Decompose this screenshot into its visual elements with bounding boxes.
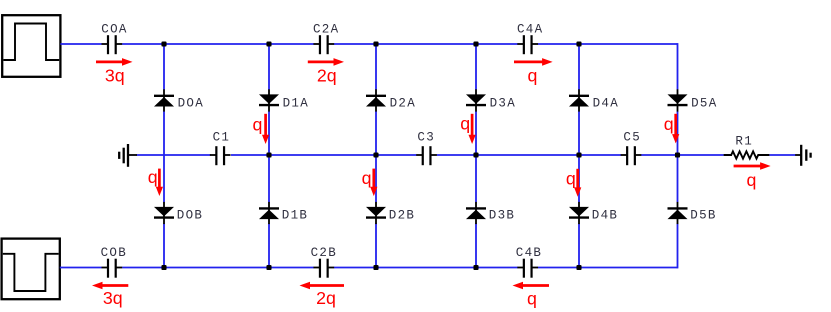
capacitor C2A [313, 35, 334, 54]
wire top rail: V1 to C0A [60, 43, 101, 45]
wire column 4: top rail to D4A [578, 44, 580, 90]
junction top rail node A1 [266, 41, 271, 46]
svg-text:COB: COB [101, 246, 127, 260]
svg-text:q: q [528, 65, 538, 85]
wire column 2: D2B to bottom rail [375, 223, 377, 267]
junction bottom rail node B2 [373, 265, 378, 270]
charge flow arrow q out of C4B [513, 282, 550, 290]
junction bottom rail node B3 [473, 265, 478, 270]
junction top rail node A4 [576, 41, 581, 46]
charge flow arrow q into D1A [262, 114, 269, 144]
wire top rail: C4A to right corner [538, 43, 678, 45]
wire: D5B down to bottom-right corner [677, 224, 679, 269]
wire column 2: top rail to D2A [375, 44, 377, 90]
diode D3A [466, 89, 486, 111]
svg-text:q: q [253, 114, 263, 134]
svg-text:COA: COA [101, 23, 127, 37]
junction top rail node A3 [473, 41, 478, 46]
wire bottom rail: C4B to right corner [538, 267, 678, 269]
charge flow arrow 2q out of C2B [300, 282, 345, 290]
charge flow arrow 3q into C0A [96, 58, 133, 66]
junction mid rail DC node at column 3 [473, 152, 478, 157]
wire mid rail: C5 to R1 [641, 154, 724, 156]
diode D3B [466, 202, 486, 224]
wire mid rail: R1 to ground [769, 154, 795, 156]
capacitor C5 [621, 146, 642, 165]
charge flow arrow q into D2B [370, 169, 377, 197]
svg-text:q: q [148, 167, 158, 187]
svg-text:D1B: D1B [282, 208, 308, 222]
svg-text:3q: 3q [103, 288, 123, 308]
svg-text:q: q [664, 114, 674, 134]
svg-text:D1A: D1A [283, 96, 309, 110]
junction top rail node A0 [161, 41, 166, 46]
junction mid rail DC node at column 4 [576, 152, 581, 157]
svg-text:D5A: D5A [691, 96, 717, 110]
capacitor C1 [210, 146, 231, 165]
svg-text:D3B: D3B [489, 208, 515, 222]
wire column 1: D1A to D1B crossing mid rail [268, 111, 270, 202]
charge flow arrow q into D3A [469, 114, 476, 144]
diode D2B [366, 202, 386, 224]
svg-text:2q: 2q [316, 288, 336, 308]
wire column 5: D5A to D5B crossing mid rail [677, 111, 679, 202]
wire column 0: D0A to D0B crossing mid rail [163, 111, 165, 202]
wire bottom rail: C0B to C2B [122, 267, 314, 269]
capacitor C3 [416, 146, 437, 165]
svg-text:q: q [527, 289, 537, 309]
diode D5B [668, 202, 688, 224]
svg-text:D2A: D2A [390, 96, 416, 110]
svg-text:DOA: DOA [178, 96, 204, 110]
diode D2A [366, 89, 386, 111]
diode D4B [569, 202, 589, 224]
charge flow arrow q into D4B [574, 169, 581, 197]
wire bottom rail: C2B to C4B [334, 267, 518, 269]
wire column 3: top rail to D3A [475, 44, 477, 90]
wire column 3: D3A to D3B crossing mid rail [475, 111, 477, 202]
wire mid rail: C1 to C3 [231, 154, 417, 156]
wire column 0: top rail to D0A [163, 44, 165, 90]
svg-text:C4A: C4A [517, 23, 543, 37]
svg-text:C2B: C2B [311, 246, 337, 260]
ground (left) [119, 144, 137, 167]
diode D0B [154, 202, 174, 224]
source V1 (top square-wave source) [2, 15, 60, 77]
junction bottom rail node B1 [266, 265, 271, 270]
svg-text:3q: 3q [105, 65, 125, 85]
svg-text:q: q [362, 168, 372, 188]
svg-text:q: q [460, 114, 470, 134]
charge flow arrow q into C4A [514, 58, 553, 66]
capacitor C4B [517, 259, 538, 278]
svg-text:D3A: D3A [490, 96, 516, 110]
junction mid rail DC node at column 1 [266, 152, 271, 157]
wire column 1: top rail to D1A [268, 44, 270, 90]
svg-text:C2A: C2A [313, 23, 339, 37]
junction bottom rail node B0 [161, 265, 166, 270]
wire bottom rail: V2 to C0B [60, 267, 102, 269]
wire mid rail: C3 to C5 [437, 154, 621, 156]
wire column 2: D2A to D2B crossing mid rail [375, 111, 377, 202]
capacitor C2B [313, 259, 334, 278]
svg-text:q: q [747, 170, 757, 190]
junction mid rail DC node at column 5 [675, 152, 680, 157]
junction mid rail DC node at column 2 [373, 152, 378, 157]
capacitor C0B [102, 259, 123, 278]
charge flow arrow q through R1 [734, 162, 771, 170]
svg-text:D4B: D4B [592, 208, 618, 222]
wire top rail: C2A to C4A [334, 43, 518, 45]
source V2 (bottom square-wave source) [2, 239, 60, 300]
svg-text:R1: R1 [735, 134, 753, 148]
charge flow arrow q into D5A [672, 114, 679, 144]
wire top rail: C0A to C2A [122, 43, 314, 45]
diode D4A [569, 89, 589, 111]
svg-text:C5: C5 [623, 131, 641, 145]
capacitor C0A [102, 35, 123, 54]
wire mid rail: ground to C1 [137, 154, 211, 156]
svg-text:DOB: DOB [177, 208, 203, 222]
capacitor C4A [517, 35, 538, 54]
junction top rail node A2 [373, 41, 378, 46]
ground (right) [795, 145, 810, 166]
wire column 4: D4A to D4B crossing mid rail [578, 111, 580, 202]
svg-text:2q: 2q [317, 65, 337, 85]
svg-text:C1: C1 [213, 131, 231, 145]
diode D5A [668, 89, 688, 111]
charge flow arrow q into D0B [156, 169, 163, 196]
charge flow arrow 3q out of C0B [92, 282, 128, 290]
diode D0A [154, 89, 174, 111]
resistor R1 [724, 151, 770, 158]
junction bottom rail node B4 [576, 265, 581, 270]
charge flow arrow 2q into C2A [308, 58, 344, 66]
svg-text:C4B: C4B [516, 246, 542, 260]
wire: top-right corner down to D5A [677, 43, 679, 89]
wire column 0: D0B to bottom rail [163, 223, 165, 267]
svg-text:D5B: D5B [690, 208, 716, 222]
wire column 4: D4B to bottom rail [578, 223, 580, 267]
wire column 1: D1B to bottom rail [268, 223, 270, 267]
svg-text:C3: C3 [417, 131, 435, 145]
diode D1B [259, 202, 279, 224]
svg-text:D4A: D4A [593, 96, 619, 110]
diode D1A [259, 89, 279, 111]
wire column 3: D3B to bottom rail [475, 223, 477, 267]
svg-text:D2B: D2B [389, 208, 415, 222]
svg-text:q: q [566, 168, 576, 188]
